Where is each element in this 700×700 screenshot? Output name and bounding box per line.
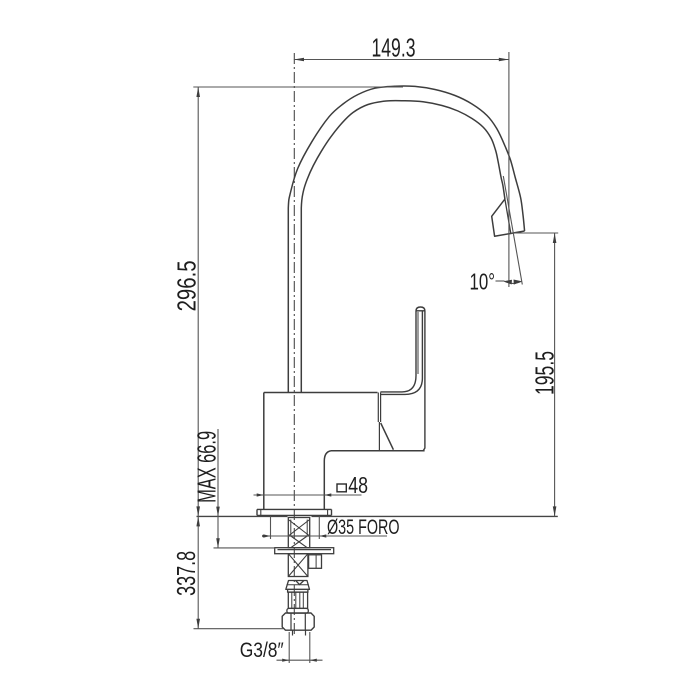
G3/8 stub: [293, 630, 306, 635]
faucet spout inner contour: [301, 101, 505, 393]
threaded shank upper: [288, 518, 309, 548]
faucet body: [264, 393, 425, 510]
dim G3/8 ext lines: [288, 632, 290, 663]
dim dia-35 ext lines: [270, 516, 272, 539]
hose connector collar: [286, 581, 310, 590]
hex nut: [282, 613, 314, 630]
ext line top of 296.5: [193, 86, 403, 88]
149.3 right arrow: [499, 58, 509, 62]
svg-text:337.8: 337.8: [171, 551, 201, 596]
dim 337.8 line: [197, 516, 199, 628]
body right lower wall: [323, 461, 325, 509]
296.5 top arrow: [196, 87, 200, 97]
square symbol for 48: [337, 484, 346, 492]
149.3 left arrow: [294, 58, 304, 62]
svg-text:296.5: 296.5: [172, 260, 202, 311]
10 deg slanted line: [503, 176, 522, 285]
body front vertical edges: [377, 393, 379, 423]
svg-text:149.3: 149.3: [372, 33, 416, 63]
337.8 top arrow (up): [196, 516, 200, 526]
side mounting nut: [309, 555, 322, 569]
hose bottom collar: [287, 608, 308, 613]
10deg arc right arrow: [514, 280, 522, 285]
svg-text:MAX 66.9: MAX 66.9: [191, 431, 221, 503]
body chamfer diagonal: [381, 423, 394, 450]
svg-text:48: 48: [348, 472, 368, 498]
hose crimp band: [288, 589, 308, 592]
svg-text:10°: 10°: [470, 269, 496, 295]
spout tip aerator wedge: [492, 199, 525, 236]
svg-text:195.5: 195.5: [529, 351, 559, 395]
dim G3/8 line: [277, 659, 323, 661]
dim MAX 66.9 line: [217, 429, 219, 548]
MAX66.9 bottom arrow (down): [216, 538, 220, 548]
body left wall: [263, 393, 265, 510]
dia35 left arrow: [264, 534, 271, 537]
body front edge lower: [378, 422, 380, 451]
ext line washer top for MAX 66.9: [214, 547, 276, 549]
body bottom edge of handle housing: [331, 450, 425, 452]
svg-text:Ø35 FORO: Ø35 FORO: [327, 516, 400, 539]
body inside fillet: [324, 451, 331, 461]
mounting washer plate: [275, 548, 334, 554]
dia35 right arrow: [319, 534, 326, 537]
sq48 right arrow: [324, 493, 331, 496]
faucet spout outer contour: [288, 86, 524, 393]
dim 195.5 line: [554, 233, 556, 516]
threaded shank lower: [288, 554, 308, 577]
svg-text:G3/8″: G3/8″: [240, 638, 284, 662]
dim square-48 line: [254, 494, 362, 496]
dim dia-35 line with tail under text: [264, 535, 388, 537]
dim 296.5 line: [197, 87, 199, 516]
base flange: [257, 509, 332, 515]
hose ferrule with ribs: [288, 592, 307, 608]
ext line bottom of 337.8: [194, 628, 284, 630]
arrowheads: [196, 58, 556, 662]
10 deg leader dash: [496, 280, 505, 282]
337.8 bottom arrow (down): [196, 619, 200, 629]
faucet centerline: [293, 53, 295, 637]
G38 left arrow: [282, 659, 289, 662]
195.5 bottom arrow: [553, 506, 557, 516]
spout tip front edge: [505, 199, 511, 233]
handle lever: [380, 307, 425, 451]
296.5 bottom arrow (down): [196, 506, 200, 516]
10 deg arc: [504, 281, 521, 283]
countertop line: [197, 515, 558, 517]
dia35 tail dot: [262, 535, 265, 538]
ext line spout outlet for 195.5: [511, 232, 559, 234]
sq48 left arrow: [257, 493, 264, 496]
MAX66.9 top arrow (down): [216, 507, 220, 517]
dim 149.3 line: [294, 59, 509, 61]
right extension line of 149.3 / 10deg vertical reference: [508, 52, 510, 287]
10deg arc left arrow: [504, 280, 513, 285]
G38 right arrow: [310, 659, 317, 662]
body top edge: [264, 392, 378, 394]
195.5 top arrow: [553, 233, 557, 243]
